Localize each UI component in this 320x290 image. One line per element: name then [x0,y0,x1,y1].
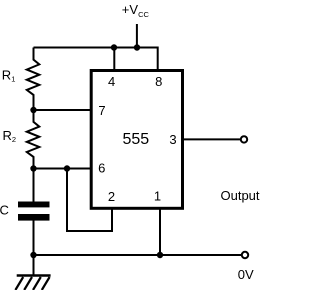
svg-text:2: 2 [108,189,115,204]
wire pin 7 [34,109,92,111]
wire pin 4 stub [113,48,115,71]
node R1/R2/pin7 junction [30,107,36,113]
wire +Vcc stub [136,24,138,48]
op-amp U1 555 timer body [91,71,182,209]
svg-text:0V: 0V [238,267,254,282]
svg-text:3: 3 [169,132,176,147]
svg-text:7: 7 [98,103,105,118]
svg-text:C: C [0,203,9,218]
ground [15,255,50,290]
capacitor C [18,202,50,221]
svg-text:Output: Output [221,188,260,203]
wire pin 2 loop [67,169,112,232]
resistor R2 [27,110,40,169]
wire capacitor top lead [33,169,35,202]
svg-text:555: 555 [122,131,149,148]
wire pin 1 [159,209,161,256]
wire capacitor bottom lead [33,221,35,256]
svg-text:6: 6 [98,160,105,175]
0V terminal [242,252,248,258]
svg-text:4: 4 [108,74,115,89]
wire ground rail [34,254,243,256]
node pin1/ground-rail junction [157,252,163,258]
node pin6/pin2 junction [64,165,70,171]
node pin4/rail junction [111,44,117,50]
node C/ground-rail junction [30,252,36,258]
resistor R1 [27,48,40,111]
output terminal [241,136,247,142]
svg-text:1: 1 [154,189,161,204]
wire pin 6 [34,168,92,170]
node R2/C/pin6 junction [30,165,36,171]
wire pin 3 output [184,138,241,140]
wire supply rail to pin 8 [34,48,158,71]
node Vcc/rail junction [134,44,140,50]
svg-text:8: 8 [155,74,162,89]
